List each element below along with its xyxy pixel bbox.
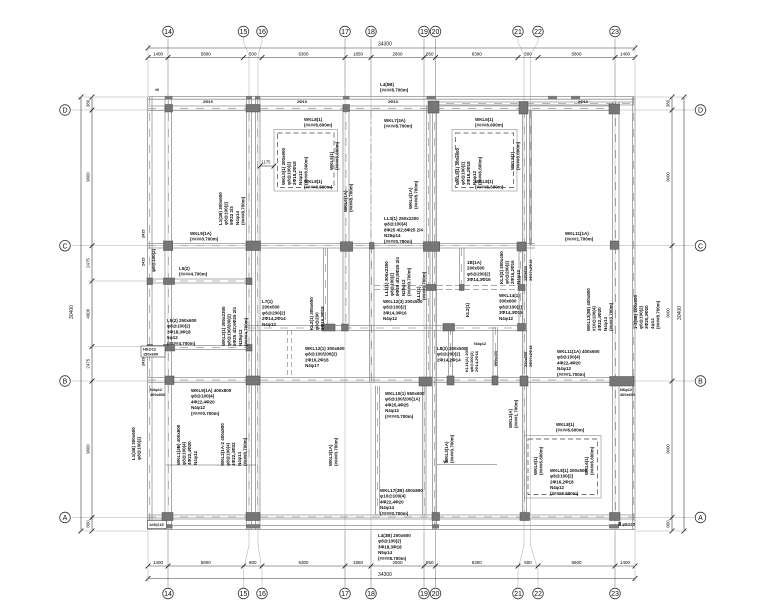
col E2 end [246, 345, 252, 352]
edge mark [165, 96, 173, 100]
WKL6(1A) rot [343, 183, 354, 212]
LL1(1) rot [384, 257, 411, 296]
WKL1(3B) rot [176, 424, 198, 465]
svg-text:#6: #6 [155, 88, 159, 92]
svg-text:18: 18 [367, 591, 375, 598]
svg-text:1400: 1400 [620, 52, 631, 57]
grid bubble bottom 21 [513, 588, 524, 599]
grid 19 wall [427, 106, 431, 381]
grid bubble bottom 22 [533, 588, 544, 599]
bottom dimension lines [148, 565, 635, 567]
svg-text:5800: 5800 [571, 52, 582, 57]
svg-text:φ8@100(2): φ8@100(2) [151, 248, 156, 272]
grid B wall [148, 378, 620, 383]
beam L5(2) [148, 279, 252, 283]
svg-text:1400: 1400 [620, 560, 631, 565]
svg-text:1175: 1175 [261, 160, 271, 165]
svg-text:15: 15 [240, 591, 248, 598]
svg-text:9600: 9600 [666, 172, 671, 182]
svg-text:20: 20 [432, 591, 440, 598]
svg-text:30400: 30400 [677, 306, 683, 320]
grid 20 wall [433, 106, 437, 530]
svg-text:500: 500 [249, 52, 257, 57]
WKL2(A) rot [508, 399, 519, 428]
phi8 rot [151, 248, 156, 272]
col F a [426, 285, 436, 291]
col C23 [610, 241, 618, 249]
svg-text:B: B [698, 379, 703, 386]
grid 14 wall [165, 97, 172, 530]
svg-text:380: 380 [86, 99, 91, 107]
grid bubble left C [60, 240, 71, 251]
svg-text:500: 500 [524, 560, 532, 565]
grid 23 wall [613, 102, 620, 516]
svg-text:6300: 6300 [298, 52, 309, 57]
col D17 [343, 105, 350, 112]
col E2 14 [164, 345, 175, 352]
col band2 c [443, 324, 455, 332]
svg-text:17: 17 [341, 29, 349, 36]
grid C wall [148, 244, 535, 249]
svg-text:800: 800 [666, 520, 671, 528]
grid bubble top 16 [257, 26, 268, 37]
WKL2(1A) rot [220, 423, 247, 466]
grid bubble top 18 [366, 26, 377, 37]
svg-text:20: 20 [432, 29, 440, 36]
svg-text:800: 800 [249, 560, 257, 565]
col E end [246, 278, 252, 285]
horizontal grid axis lines [72, 109, 694, 111]
dashed interior wall [287, 330, 289, 378]
svg-text:15: 15 [240, 29, 248, 36]
svg-text:B: B [63, 379, 68, 386]
grid bubble top 22 [533, 26, 544, 37]
svg-text:6300: 6300 [472, 560, 483, 565]
boxed note [141, 346, 165, 357]
svg-text:5800: 5800 [201, 560, 212, 565]
dim 1175 [260, 165, 274, 167]
svg-text:500: 500 [524, 52, 532, 57]
grid 19 wall lower [423, 386, 427, 515]
grid bubble right D [695, 105, 706, 116]
interior wall [460, 248, 465, 289]
edge mark [255, 96, 260, 100]
svg-text:D: D [62, 108, 67, 115]
svg-text:850: 850 [426, 52, 434, 57]
col B14 [165, 376, 174, 385]
svg-text:2475: 2475 [86, 358, 91, 368]
edge mark [343, 96, 350, 100]
L1(1B) left rot [131, 427, 142, 460]
svg-text:1850: 1850 [353, 52, 364, 57]
grid 16 wall [256, 97, 261, 530]
col D14 [165, 105, 173, 113]
right dimension lines [683, 97, 685, 531]
opening room 1 [274, 130, 338, 192]
beam left bay 2 [148, 346, 252, 350]
col C21 [517, 242, 526, 251]
svg-text:14: 14 [164, 29, 172, 36]
col band2 d [518, 324, 526, 332]
interior beam band [248, 326, 523, 331]
svg-text:1400: 1400 [153, 560, 164, 565]
svg-text:9600: 9600 [86, 172, 91, 182]
svg-text:2Φ10: 2Φ10 [297, 99, 308, 104]
top dimension lines [148, 47, 635, 49]
svg-text:19: 19 [420, 29, 428, 36]
grid bubble bottom 15 [238, 588, 249, 599]
margin dim [142, 230, 146, 238]
left dimension lines [80, 97, 82, 531]
edge mark south [165, 524, 173, 528]
grid bubble top 20 [430, 26, 441, 37]
col band2 a [322, 324, 335, 331]
WKL5(1) room1 [281, 147, 308, 185]
svg-text:H8@12150x600: H8@12150x600 [143, 347, 158, 357]
rot 200x400 [493, 351, 498, 366]
svg-text:34300: 34300 [378, 42, 392, 48]
svg-text:2475: 2475 [86, 258, 91, 268]
KL2(1) small rot [465, 302, 470, 317]
svg-text:17: 17 [341, 591, 349, 598]
col E 14 [164, 278, 175, 285]
svg-text:200x400: 200x400 [493, 351, 498, 366]
grid bubble top 23 [610, 26, 621, 37]
opening room 3 [525, 436, 602, 499]
col B stub [447, 376, 454, 385]
svg-text:14: 14 [164, 591, 172, 598]
grid bubble top 14 [163, 26, 174, 37]
grid bubble right C [695, 240, 706, 251]
col E w [147, 278, 153, 285]
svg-text:18: 18 [367, 29, 375, 36]
interior wall kl [493, 327, 498, 381]
col C14 [164, 241, 173, 251]
KL2(1) rot [309, 297, 325, 330]
svg-text:9600: 9600 [86, 444, 91, 454]
col C19-20 [423, 242, 439, 252]
col D21-22 [519, 102, 528, 115]
grid bubble bottom 23 [610, 588, 621, 599]
edge mark [571, 96, 580, 100]
svg-text:16: 16 [258, 29, 266, 36]
edge mark [548, 96, 557, 100]
svg-text:850: 850 [426, 560, 434, 565]
grid bubble left B [60, 376, 71, 387]
margin dim [142, 258, 146, 266]
col A20 [432, 513, 440, 521]
west edge wall [148, 97, 153, 530]
col B23 wide [610, 377, 634, 387]
KL3(2) rot [499, 251, 521, 284]
WKL3(1A) rot b [328, 437, 339, 466]
opening room 2 [452, 130, 517, 192]
grid 21 wall [523, 110, 527, 514]
WKL2(1) rot [221, 306, 248, 346]
svg-text:C: C [698, 243, 703, 250]
WKL5(1) room2 right [510, 141, 521, 170]
col B21 [520, 376, 528, 386]
rot 330x600 a [523, 259, 533, 281]
grid 22 wall [530, 110, 532, 245]
grid 17 wall [343, 106, 349, 330]
svg-text:2419: 2419 [142, 358, 146, 366]
WKL6(1) room3 right [584, 446, 595, 475]
margin dim [142, 358, 146, 366]
leader line under rotated blocks [166, 464, 256, 466]
grid bubble bottom 17 [340, 588, 351, 599]
col C17 [340, 242, 352, 252]
WKL5(1) room2 [455, 147, 482, 185]
col C18 [370, 243, 375, 250]
col F c [518, 285, 525, 291]
edge mark [246, 96, 252, 100]
boxed note bottom [148, 521, 167, 529]
grid bubble right A [695, 512, 706, 523]
edge mark south [609, 524, 619, 528]
svg-text:6300: 6300 [472, 52, 483, 57]
wall 21 inner [519, 245, 523, 330]
svg-text:2415: 2415 [142, 258, 146, 266]
WKL13(3B) rot [586, 288, 613, 331]
grid bubble top 21 [513, 26, 524, 37]
1-3(5B) rot [633, 294, 660, 329]
grid bubble bottom 14 [163, 588, 174, 599]
col band2 b [342, 324, 349, 331]
svg-text:16: 16 [258, 591, 266, 598]
grid D wall [148, 106, 620, 111]
interior wall kl2 [324, 248, 328, 330]
WKL4(1A) rot [408, 180, 419, 209]
col C15-16 [246, 241, 261, 251]
svg-text:A: A [63, 515, 68, 522]
col B kl [492, 376, 498, 385]
grid bubble bottom 18 [366, 588, 377, 599]
svg-text:1400: 1400 [153, 52, 164, 57]
grid A wall [148, 515, 635, 519]
svg-text:9600: 9600 [666, 444, 671, 454]
edge mark south [432, 524, 439, 528]
svg-text:5600: 5600 [571, 560, 582, 565]
svg-text:2Φ10: 2Φ10 [388, 99, 399, 104]
svg-text:A: A [698, 515, 703, 522]
svg-text:380: 380 [666, 99, 671, 107]
stub wall [449, 327, 453, 381]
edge mark [427, 96, 437, 100]
grid bubble top 17 [340, 26, 351, 37]
svg-text:9600: 9600 [666, 308, 671, 318]
south edge beam [148, 526, 635, 530]
svg-text:D: D [698, 108, 703, 115]
col E2 w [147, 345, 153, 352]
col D19-20 [428, 101, 439, 113]
svg-text:2Φ10: 2Φ10 [203, 99, 214, 104]
grid bubble top 15 [238, 26, 249, 37]
svg-text:N4φ12: N4φ12 [474, 341, 487, 346]
svg-text:φ6: φ6 [443, 460, 448, 464]
wall 18 lower [376, 386, 380, 515]
col B19-20 [419, 377, 432, 386]
svg-text:2Φ10: 2Φ10 [578, 99, 589, 104]
grid bubble bottom 16 [257, 588, 268, 599]
L1(1B) rot [218, 192, 245, 225]
grid 18 wall lower [370, 245, 375, 382]
edge mark south [246, 524, 260, 528]
grid bubble right B [695, 376, 706, 387]
WKL3(1A) rot [444, 434, 455, 463]
col A21 [520, 513, 530, 521]
svg-text:22: 22 [534, 29, 542, 36]
north edge beam [148, 97, 635, 100]
grid bubble left A [60, 512, 71, 523]
svg-text:800: 800 [86, 520, 91, 528]
col F b [460, 285, 465, 291]
svg-text:5800: 5800 [201, 52, 212, 57]
rot 330x600 b [523, 345, 533, 367]
col B15-16 [246, 376, 260, 385]
grid bubble bottom 20 [430, 588, 441, 599]
svg-text:C: C [62, 243, 67, 250]
KL11(A) rot [464, 346, 479, 372]
col D15-16 [246, 105, 260, 113]
svg-text:21: 21 [514, 591, 522, 598]
svg-text:KL2(1): KL2(1) [465, 302, 470, 317]
WKL5(1) room1 right [329, 141, 340, 170]
svg-text:22: 22 [534, 591, 542, 598]
svg-text:1850: 1850 [353, 560, 364, 565]
svg-text:23: 23 [611, 29, 619, 36]
svg-text:2600: 2600 [392, 52, 403, 57]
col A14 [162, 513, 173, 521]
svg-text:1#8@15: 1#8@15 [149, 522, 164, 527]
svg-text:23: 23 [611, 591, 619, 598]
grid bubble bottom 19 [419, 588, 430, 599]
col A15-16 [246, 513, 260, 521]
east edge wall [633, 97, 636, 530]
svg-text:6300: 6300 [298, 560, 309, 565]
col A23 [610, 513, 621, 521]
interior beam dashed [374, 285, 525, 287]
WKL6(1) room3 left [533, 446, 544, 475]
LL1(1) rot 2 [416, 271, 427, 300]
svg-text:34300: 34300 [378, 572, 392, 578]
grid 18 axis upper [370, 110, 372, 245]
svg-text:30400: 30400 [69, 305, 75, 319]
grid 15 wall [247, 97, 252, 530]
grid bubble left D [60, 105, 71, 116]
svg-text:19: 19 [420, 591, 428, 598]
col D23 [609, 104, 620, 114]
grid bubble top 19 [419, 26, 430, 37]
svg-text:2415: 2415 [142, 230, 146, 238]
svg-text:21: 21 [514, 29, 522, 36]
north beam right section [430, 102, 634, 105]
svg-text:4600: 4600 [86, 308, 91, 318]
vertical grid axis lines [167, 39, 169, 98]
